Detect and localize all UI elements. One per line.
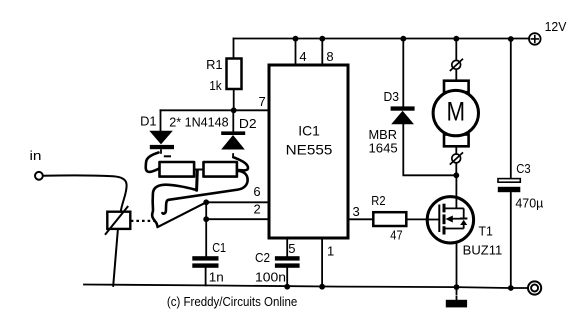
svg-text:7: 7 (259, 94, 266, 109)
svg-text:C1: C1 (212, 240, 226, 255)
svg-text:D3: D3 (384, 89, 400, 104)
svg-text:5: 5 (288, 241, 295, 256)
svg-text:R1: R1 (206, 57, 223, 72)
svg-text:2* 1N4148: 2* 1N4148 (169, 115, 229, 130)
svg-text:3: 3 (353, 204, 360, 219)
svg-text:NE555: NE555 (286, 141, 333, 157)
svg-text:2: 2 (254, 201, 261, 216)
svg-text:D1: D1 (140, 113, 157, 128)
svg-text:100n: 100n (255, 270, 286, 285)
svg-text:C3: C3 (516, 161, 530, 176)
svg-text:BUZ11: BUZ11 (463, 242, 503, 257)
svg-text:4: 4 (299, 49, 306, 64)
svg-text:1k: 1k (209, 78, 222, 93)
svg-text:T1: T1 (479, 223, 493, 238)
svg-text:1n: 1n (209, 270, 224, 285)
svg-text:D2: D2 (239, 116, 257, 131)
svg-text:M: M (447, 96, 466, 126)
svg-text:(c) Freddy/Circuits Online: (c) Freddy/Circuits Online (167, 294, 297, 309)
svg-text:IC1: IC1 (298, 123, 320, 139)
svg-text:R2: R2 (371, 193, 385, 208)
svg-text:in: in (30, 148, 42, 163)
svg-text:470µ: 470µ (515, 195, 543, 210)
svg-text:1645: 1645 (369, 141, 398, 156)
svg-text:6: 6 (253, 184, 260, 199)
svg-text:8: 8 (326, 49, 333, 64)
svg-text:12V: 12V (545, 19, 567, 34)
svg-text:C2: C2 (255, 250, 270, 265)
svg-text:1: 1 (327, 244, 334, 259)
svg-text:47: 47 (390, 228, 402, 243)
